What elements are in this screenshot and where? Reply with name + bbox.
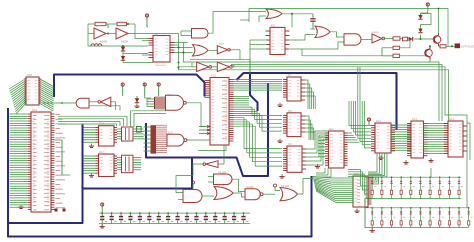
wire oscillator feedback box (88, 24, 95, 46)
wire U11 to U12 staircase (349, 101, 371, 126)
IC U5 latch B (287, 113, 301, 137)
svg-text:IC10: IC10 (211, 76, 217, 78)
wire latch C right outs (306, 131, 329, 149)
LED D10 with resistor R20 (371, 177, 373, 181)
LED D29 with resistor R39 (448, 208, 450, 212)
wire O0 output (202, 195, 214, 197)
OR gate O1 (214, 187, 233, 200)
LED D15 with resistor R25 (419, 177, 421, 181)
wire O2 output (298, 185, 304, 194)
wire IC5 left feeds (135, 38, 149, 40)
svg-text:IC19: IC19 (32, 110, 38, 112)
svg-text:IC11: IC11 (329, 129, 334, 131)
wire fan left of U7 to bus (9, 79, 26, 90)
AND gate N1 with bubble (245, 189, 260, 200)
diode D7b lower (420, 25, 422, 29)
LED D27 with resistor R37 (429, 208, 431, 212)
wire T5 to A0 (89, 101, 98, 103)
capacitor C7 (312, 14, 314, 19)
LED D25 with resistor R35 (410, 208, 412, 212)
OR gate G3 (266, 9, 282, 19)
IC U15 display latch (353, 176, 368, 207)
pin stubs U8 right (51, 113, 55, 115)
wire latch B right outs (305, 116, 309, 140)
capacitor C9 (101, 213, 103, 216)
ground below U9 (91, 144, 93, 147)
LED array row2 top wire (365, 207, 469, 209)
ground below U10 (91, 173, 93, 176)
bypass row bottom wire (99, 223, 250, 225)
ground latch B (279, 139, 281, 142)
wire Q1 emitter to out node (439, 45, 441, 47)
wire M2 feeds (144, 126, 151, 128)
wire RP1 right out (133, 128, 144, 130)
wire diode chain vertical (122, 46, 124, 63)
capacitor C19 (195, 213, 197, 216)
resistor R9b (403, 37, 408, 41)
junction dots IC5 right (178, 47, 180, 49)
LED D12 with resistor R22 (391, 177, 393, 181)
OR gate G4 (315, 26, 330, 37)
ground bypass row (101, 224, 103, 227)
LED D31 with resistor R41 (468, 208, 470, 212)
resistor pack RP1 (122, 127, 134, 141)
wire G1 output up (208, 12, 261, 34)
bus vertical data B3 (146, 83, 268, 176)
capacitor C13 (139, 213, 141, 216)
AND gate G5 (344, 34, 361, 45)
wire fan into U15 from bus (313, 177, 354, 179)
wire T2 input (192, 63, 197, 67)
capacitor C20 (205, 213, 207, 216)
inverter IC1E (217, 62, 229, 71)
resistor R10a (393, 46, 400, 49)
wire feeds left of U11 (318, 136, 325, 138)
wire taps U9 left from bus (84, 127, 96, 129)
LED D14 with resistor R24 (410, 177, 412, 181)
wire U3 bottom tail (198, 145, 226, 151)
wire out node (446, 45, 455, 47)
wire U9 to RP1 (117, 128, 122, 130)
resistor R9 (393, 37, 400, 40)
svg-text:IC21: IC21 (168, 133, 174, 135)
capacitor C23 (233, 213, 235, 216)
capacitor C18 (186, 213, 188, 216)
wire G2 to T1 (208, 49, 217, 51)
IC U10 latch (99, 154, 115, 177)
wire G3 output to cap (282, 13, 313, 15)
inverter IC1D (197, 62, 209, 71)
LED array row2 bottom wire (365, 227, 469, 229)
wire nested corners above U9 (131, 111, 167, 127)
svg-text:IC13: IC13 (412, 119, 418, 121)
wire loop around D6 (421, 14, 432, 25)
inverter T6 pointing left (206, 161, 219, 168)
AND gate O0 (183, 190, 202, 203)
diode D6 top (420, 13, 422, 15)
IC U13 shift register (411, 121, 424, 158)
IC U3 big peripheral (210, 78, 229, 146)
wire U3 right mid to bus corner (234, 96, 250, 98)
wire U14 right edge drops (467, 123, 470, 160)
wire G3 inputs (261, 11, 266, 13)
wire taps U10 left from bus (84, 155, 96, 157)
resistor R10b (393, 54, 400, 57)
inverter IC1C (217, 46, 227, 54)
diode D1 crystal upper (121, 47, 125, 51)
IC U4 latch A (287, 77, 301, 101)
svg-text:4069N: 4069N (372, 32, 379, 34)
wire R10 links (382, 47, 393, 49)
wire U3 right staircase to latch B (234, 107, 283, 115)
connector OUT flag (455, 43, 460, 48)
pin labels U8 right (56, 114, 61, 116)
supply VCC bypass row (101, 203, 104, 206)
label U3 inner (222, 80, 227, 82)
wire P2 link (145, 96, 151, 98)
wire U15 right ups (372, 176, 375, 179)
supply VCC P3 (157, 83, 160, 86)
pin stubs U7 (25, 78, 27, 80)
wire U3 right to latch A fan (234, 79, 283, 81)
supply VCC near U12 (367, 118, 370, 121)
label U15 inner (357, 179, 360, 181)
svg-text:74LS32: 74LS32 (217, 185, 226, 187)
junction dots oscillator (107, 33, 109, 35)
wire fan right of U7 to bus stub (39, 79, 54, 87)
LED D23 with resistor R33 (391, 208, 393, 212)
LED D13 with resistor R23 (400, 177, 402, 181)
NAND gate M2 comb (151, 125, 157, 153)
LED D24 with resistor R34 (400, 208, 402, 212)
ground below U8 (20, 205, 22, 208)
svg-text:4069N: 4069N (100, 41, 107, 44)
bus branch to address latches (83, 158, 193, 189)
wire T2 to T3 (210, 66, 217, 68)
junction squares below U8 (55, 209, 58, 212)
wire rail to R10 pair (302, 49, 393, 56)
AND gate IC2A (192, 29, 209, 39)
label U8 inner text (33, 115, 37, 117)
wire G1 input stubs (181, 30, 192, 32)
wire U2 left vertical (249, 40, 251, 74)
supply VCC P2 (143, 83, 146, 86)
bus left rectangle (8, 108, 83, 223)
diode D5 (409, 37, 413, 41)
wire long rail C y67.5 (179, 67, 468, 208)
LED D30 with resistor R40 (458, 208, 460, 212)
IC U2 counter (270, 27, 285, 54)
supply VCC P1 (121, 83, 124, 86)
ground below U15 (356, 209, 358, 212)
svg-text:4069: 4069 (219, 44, 225, 46)
svg-text:IC20: IC20 (167, 95, 173, 97)
wire U3 right lower to latch C (234, 118, 283, 149)
wire M1 output (187, 103, 206, 127)
wire U11 bottom drops (316, 168, 325, 173)
svg-text:74LS32: 74LS32 (281, 186, 290, 188)
supply arrow top right (426, 3, 429, 6)
ground latch C (281, 174, 283, 177)
wire O0 second input (178, 199, 183, 201)
wire taps U8 left from bus (10, 113, 29, 115)
svg-text:IC6: IC6 (271, 24, 275, 27)
wire long rail D y70 (179, 70, 449, 121)
NAND gate M2 body (167, 134, 184, 146)
wire M1 input feeds (147, 98, 155, 100)
wire long rail B y65 (231, 65, 442, 121)
wire T3 output to rail (231, 65, 234, 67)
wire U12 to U13 bundle (391, 124, 411, 126)
IC U1 timer IC5 (153, 36, 170, 63)
wire K-right long taps (58, 116, 127, 126)
OR gate O2 (280, 188, 298, 201)
supply pin circle small (192, 181, 195, 184)
wire T6 out left-down (176, 164, 204, 193)
wire R9 to R9b (400, 38, 403, 40)
wire A1 output to N1 (232, 179, 245, 191)
wire N1 out to O2 (263, 193, 275, 195)
ground below U11 (317, 164, 319, 167)
capacitor C22 (224, 213, 226, 216)
resistor R2 (117, 22, 127, 25)
wire U10 to RP2 (117, 157, 122, 159)
wire osc vertical joins (107, 24, 109, 28)
wire RP2 right out (133, 157, 141, 159)
AND gate A0 pointing left (76, 98, 89, 108)
capacitor C15 (158, 213, 160, 216)
svg-text:IC16: IC16 (99, 124, 105, 126)
LED array row1 bottom wire (365, 198, 461, 200)
capacitor C10 (111, 213, 113, 216)
svg-text:IC14: IC14 (449, 119, 455, 121)
wire G3 branch to U2 (291, 14, 293, 28)
svg-text:OUT PULSE: OUT PULSE (461, 47, 474, 49)
bus bottom long horizontal (8, 176, 312, 237)
wire LED rows left link (365, 176, 368, 178)
wire feeds left of U2 (250, 39, 265, 41)
wire Q2 emitter down (429, 60, 431, 63)
svg-text:74LS00: 74LS00 (246, 187, 255, 189)
NAND gate M1 8-input comb (155, 96, 167, 98)
svg-text:IC5: IC5 (154, 34, 158, 37)
wire U8 top pin to inverter rail (61, 102, 63, 104)
NAND gate M1 body (166, 95, 184, 110)
LED D19 with resistor R29 (458, 177, 460, 181)
capacitor C12 (129, 213, 131, 216)
wire IC5 vertical right taps (178, 34, 180, 71)
wire T4 to R (384, 38, 394, 40)
ground below U12 (380, 156, 382, 159)
LED D17 with resistor R27 (439, 177, 441, 181)
transistor Q1 (433, 36, 441, 44)
IC U11 decoder (329, 131, 345, 168)
wire gates to latch region (303, 179, 313, 186)
LED D11 with resistor R21 (381, 177, 383, 181)
LED D16 with resistor R26 (429, 177, 431, 181)
wire Q1 collector branch (438, 9, 440, 34)
wire O2 bubble input (274, 184, 277, 187)
svg-text:IC15: IC15 (354, 174, 360, 176)
ground LED array (371, 228, 373, 231)
IC U9 latch (99, 126, 115, 146)
svg-text:74LS08: 74LS08 (218, 172, 227, 174)
svg-text:IC12: IC12 (376, 121, 382, 123)
wire Q2 collector join (429, 45, 431, 47)
wire A0 output left (42, 102, 76, 104)
AND gate A1 (214, 174, 233, 185)
wire oscillator top link (106, 23, 117, 25)
svg-text:4069N: 4069N (121, 41, 128, 44)
LED D26 with resistor R36 (419, 208, 421, 212)
wire oscillator top to inverters (126, 23, 135, 25)
pin stubs U3 right (229, 79, 234, 81)
diode D2 crystal lower (121, 56, 125, 60)
pin stubs U3 left upper from bus (205, 80, 211, 82)
capacitor C14 (148, 213, 150, 216)
wire long rail A y62.5 (184, 62, 440, 121)
LED D18 with resistor R28 (448, 177, 450, 181)
wire diode to Q1 base (414, 38, 435, 40)
LED D28 with resistor R38 (439, 208, 441, 212)
svg-text:IC18: IC18 (27, 75, 33, 77)
wire G4 inputs (310, 28, 315, 30)
bus main horizontal left segment (54, 75, 205, 98)
capacitor C17 (177, 213, 179, 216)
svg-text:IC17: IC17 (99, 152, 105, 154)
ground below U13 (405, 160, 407, 163)
resistor R11 (440, 45, 446, 48)
wire G5 to T4 (361, 38, 372, 40)
inductor L1 (91, 44, 102, 46)
wire LED feed from above (430, 168, 432, 177)
bypass row top wire (99, 212, 250, 214)
capacitor C16 (167, 213, 169, 216)
ground below D7 (136, 104, 138, 107)
resistor R1 (95, 22, 106, 25)
OR gate IC3A (193, 45, 209, 56)
bus main horizontal right segment (237, 73, 397, 130)
wire diode chain lower links (123, 62, 153, 64)
wire G4 to G5 (330, 32, 344, 37)
wire A0 input2 (89, 106, 120, 111)
wire T1 output (229, 49, 240, 51)
wire rail E y59.7 (190, 60, 250, 73)
wire top long y8.5 (249, 9, 448, 47)
bus vertical below corner (250, 73, 258, 111)
wire M2 output to T6 (187, 140, 224, 164)
transistor Q2 (425, 49, 433, 57)
wire U2 pin49 long to G5 (290, 42, 344, 49)
wire latch A right outs (305, 80, 308, 109)
wire osc bottom rail (88, 45, 148, 47)
inverter IC1B (116, 28, 128, 39)
IC U12 driver (375, 123, 391, 153)
wire IC5 right pin links (175, 42, 189, 44)
wire U8 right green links (61, 140, 63, 175)
inverter T4 (372, 34, 382, 43)
LED array row1 top wire (368, 176, 461, 178)
inverter T5 pointing left (101, 97, 111, 106)
IC U14 shift register (448, 121, 463, 157)
capacitor C24 (243, 213, 245, 216)
wire U13 to U14 bundle (424, 123, 449, 125)
wire O1 output (233, 193, 245, 197)
wire inverter output to IC5 (128, 33, 179, 35)
diode D7 (136, 96, 138, 98)
svg-text:74HC4060: 74HC4060 (155, 65, 166, 67)
wire A1 inputs (208, 176, 214, 178)
supply VCC near IC5 (145, 14, 148, 17)
wire top corner set (240, 19, 249, 21)
pin stubs U3 left lower (199, 126, 210, 128)
resistor pack RP2 (122, 155, 134, 173)
ground latch A (279, 103, 281, 106)
LED D22 with resistor R32 (381, 208, 383, 212)
pin stubs U8 left (28, 113, 31, 115)
capacitor C11 (120, 213, 122, 216)
inverter IC1A (94, 28, 106, 39)
IC U6 latch C (287, 146, 302, 172)
IC U8 tall microcontroller (31, 112, 51, 212)
IC U7 register (26, 77, 39, 105)
LED D21 with resistor R31 (371, 208, 373, 212)
component small green box (137, 127, 142, 133)
wire inverter chain (106, 33, 116, 35)
wire T5 input right (111, 102, 116, 110)
wire U12 bottom drop bundle (368, 153, 377, 172)
wire nested corners to LED rows (348, 170, 368, 187)
capacitor C21 (214, 213, 216, 216)
